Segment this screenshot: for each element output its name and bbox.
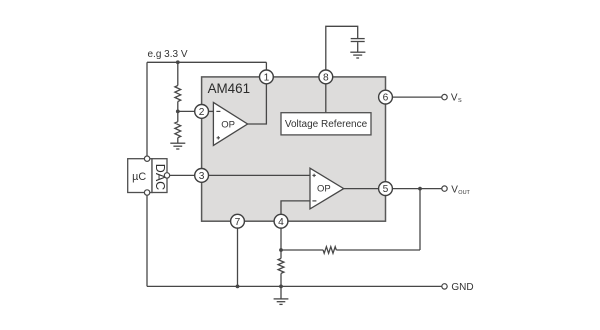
svg-text:e.g 3.3 V: e.g 3.3 V xyxy=(148,49,188,60)
wire pin 8 to capacitor xyxy=(326,26,358,70)
wire pin 6 to Vs terminal xyxy=(392,96,442,98)
wire capacitor to ground xyxy=(357,42,359,52)
wire ground rail xyxy=(147,285,442,287)
svg-text:6: 6 xyxy=(383,93,389,104)
wire pin 4 down xyxy=(280,228,282,250)
svg-text:Voltage Reference: Voltage Reference xyxy=(285,119,368,130)
svg-text:2: 2 xyxy=(199,107,205,118)
node feedback junction xyxy=(418,187,422,191)
pin 1 xyxy=(260,70,274,84)
svg-text:V: V xyxy=(451,184,458,195)
svg-text:GND: GND xyxy=(451,282,473,293)
terminal uC top xyxy=(144,156,149,161)
wire divider top segment xyxy=(177,62,179,85)
node pin 7 ground junction xyxy=(236,285,240,289)
ground bottom xyxy=(274,299,289,305)
wire feedback horizontal left xyxy=(281,249,323,251)
wire R4 top segment xyxy=(280,250,282,258)
terminal Vout xyxy=(442,186,447,191)
capacitor C1 xyxy=(351,39,365,42)
pin 8 xyxy=(319,70,333,84)
resistor R1 xyxy=(175,86,181,102)
terminal DAC output xyxy=(164,173,169,178)
node feedback to pin 4 xyxy=(279,248,283,252)
pin 4 xyxy=(274,214,288,228)
wire stub to ground symbol xyxy=(280,286,282,299)
wire R4 bottom segment xyxy=(280,273,282,286)
op-amp U1 xyxy=(213,102,247,145)
terminal Vs xyxy=(442,94,447,99)
wire op-amp U1 output to pin 1 xyxy=(248,84,267,124)
ground divider xyxy=(170,143,185,149)
IC block AM461 body xyxy=(202,77,386,221)
DAC box xyxy=(152,159,167,193)
svg-text:S: S xyxy=(458,98,462,104)
resistor R3 feedback xyxy=(323,247,336,254)
wire op-amp U2 inverting input to pin 4 xyxy=(281,201,310,214)
svg-text:1: 1 xyxy=(264,73,270,84)
svg-text:5: 5 xyxy=(383,184,389,195)
voltage reference box xyxy=(281,113,371,135)
pin 2 xyxy=(195,105,209,119)
svg-text:OUT: OUT xyxy=(458,190,470,196)
wire feedback horizontal right xyxy=(336,249,420,251)
wire left rail lower xyxy=(146,195,148,286)
svg-text:AM461: AM461 xyxy=(208,81,250,96)
svg-text:OP: OP xyxy=(317,183,331,194)
svg-text:7: 7 xyxy=(235,217,241,228)
wire divider mid segment xyxy=(177,102,179,122)
wire pin 2 to op-amp U1 xyxy=(209,110,214,112)
terminal GND xyxy=(442,284,447,289)
wire left rail upper xyxy=(146,62,148,156)
svg-text:3: 3 xyxy=(199,171,205,182)
node R4 ground junction xyxy=(279,285,283,289)
wire op-amp U2 output to pin 5 xyxy=(344,188,379,190)
wire pin 3 to op-amp U2 xyxy=(209,174,311,176)
pin 6 xyxy=(379,90,393,104)
wire pin 7 to ground rail xyxy=(237,228,239,286)
pin 7 xyxy=(231,214,245,228)
wire supply rail top xyxy=(147,61,266,63)
svg-text:8: 8 xyxy=(323,73,329,84)
wire pin 5 to Vout terminal xyxy=(392,188,442,190)
op-amp U2 xyxy=(310,168,344,209)
node divider tap xyxy=(176,110,180,114)
microcontroller box xyxy=(128,159,152,193)
terminal uC bottom xyxy=(144,190,149,195)
pin 3 xyxy=(195,169,209,183)
svg-text:V: V xyxy=(451,93,458,104)
pin 5 xyxy=(379,182,393,196)
wire tap to pin 2 xyxy=(178,110,195,112)
resistor R2 xyxy=(175,122,181,138)
resistor R4 xyxy=(278,258,284,273)
wire DAC to pin 3 xyxy=(170,174,195,176)
wire divider bottom segment xyxy=(177,138,179,144)
svg-text:4: 4 xyxy=(278,217,284,228)
ground capacitor xyxy=(350,52,365,58)
wire pin 8 to voltage reference xyxy=(325,84,327,113)
wire feedback vertical xyxy=(419,189,421,250)
node supply junction xyxy=(176,60,180,64)
svg-text:OP: OP xyxy=(221,120,235,131)
svg-text:µC: µC xyxy=(132,171,146,183)
wire to pin 1 xyxy=(265,62,267,70)
